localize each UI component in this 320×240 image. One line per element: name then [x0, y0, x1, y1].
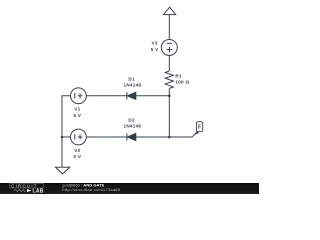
label D1 1N4148: [124, 76, 142, 87]
wire node to output flag: [169, 132, 197, 137]
wire D2 to node: [136, 136, 170, 138]
wire V1 left to corner: [62, 96, 71, 168]
wire V2 left stub: [62, 136, 71, 138]
footer bar: [0, 183, 259, 194]
svg-text:LAB: LAB: [33, 189, 44, 195]
svg-text:http://circuitlab.com/c73ca65: http://circuitlab.com/c73ca65: [62, 187, 120, 192]
svg-text:V3: V3: [152, 40, 158, 45]
label V1 5 V: [74, 107, 82, 118]
junction node at D2/output: [168, 136, 171, 139]
svg-text:5 V: 5 V: [151, 47, 159, 52]
junction V2 left: [61, 136, 64, 139]
svg-text:0 V: 0 V: [74, 154, 82, 159]
voltage source V3: [161, 40, 177, 56]
svg-text:V2: V2: [74, 148, 80, 153]
svg-text:D1: D1: [128, 76, 135, 81]
wire node down to D2 row: [168, 96, 170, 137]
label D2 1N4148: [124, 117, 142, 128]
svg-text:1N4148: 1N4148: [124, 124, 142, 129]
CircuitLab logo CIRCUIT box: [10, 183, 43, 188]
voltage source V2: [71, 129, 87, 145]
power net flag V+: [164, 7, 176, 14]
voltage source V1: [71, 88, 87, 104]
diode D2: [127, 133, 136, 140]
junction node at R1/D1: [168, 95, 171, 98]
wire power flag to V3: [168, 15, 170, 40]
svg-text:D2: D2: [128, 117, 135, 122]
label R1 100 Ohm: [175, 74, 189, 85]
svg-text:F: F: [198, 125, 201, 131]
svg-text:1N4148: 1N4148: [124, 83, 142, 88]
wire V1 to D1: [86, 95, 127, 97]
diode D1: [127, 92, 136, 99]
svg-text:V1: V1: [74, 107, 80, 112]
wire V3 to R1: [168, 56, 170, 72]
wire D1 to node: [136, 95, 170, 97]
wire R1 to node: [168, 88, 170, 95]
label V2 0 V: [74, 148, 82, 159]
svg-text:5 V: 5 V: [74, 113, 82, 118]
output flag F: [195, 122, 203, 135]
CircuitLab logo LAB row: [14, 189, 44, 195]
label V3 5 V: [151, 40, 159, 52]
svg-text:100 Ω: 100 Ω: [175, 80, 189, 85]
wire V2 to D2: [86, 136, 127, 138]
ground: [56, 167, 70, 174]
resistor R1: [165, 71, 173, 88]
svg-text:R1: R1: [175, 74, 182, 79]
